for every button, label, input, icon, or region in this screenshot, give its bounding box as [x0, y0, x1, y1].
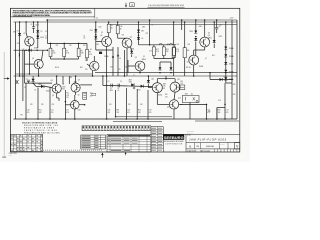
label value 27 [108, 81, 110, 83]
svg-text:Q3: Q3 [100, 35, 102, 37]
wire Q5 base [128, 65, 135, 67]
wire right inner bus [231, 20, 233, 119]
label value 20 [219, 36, 223, 38]
svg-text:10K: 10K [180, 83, 182, 85]
label bdropM4 [149, 110, 152, 114]
label value 48 [233, 94, 236, 96]
svg-text:C7: C7 [133, 75, 135, 77]
wire collector link [157, 78, 175, 80]
svg-text:470: 470 [66, 112, 69, 114]
label value 36 [128, 104, 131, 106]
node feed c [78, 43, 80, 45]
label C4m b [117, 90, 119, 92]
wire R5 bot [108, 33, 110, 37]
wire Q10 base [65, 104, 70, 106]
resistor R8 [162, 47, 165, 56]
wire C8 top [216, 20, 218, 28]
approvals table [151, 127, 163, 152]
drawing number cells [189, 143, 228, 149]
svg-text:CR12: CR12 [219, 36, 223, 38]
diode CR13 [224, 47, 233, 51]
svg-text:Q8: Q8 [51, 80, 53, 82]
node D10 mid [195, 36, 197, 38]
label M1 top2 [191, 93, 193, 96]
wire +24V rail upper [46, 19, 237, 21]
wire Q7 collector [193, 50, 195, 55]
node q5e [139, 72, 141, 74]
svg-text:R8: R8 [70, 77, 72, 79]
label value 45 [199, 66, 203, 68]
label value 22 [24, 87, 26, 89]
label value 40 [20, 115, 23, 117]
wire bottom extra line left [113, 121, 162, 123]
diode CR15b [224, 70, 233, 74]
svg-text:22K: 22K [233, 94, 236, 96]
wire mid link bus [139, 44, 177, 46]
wire R8 b [163, 56, 165, 59]
label value 28 [120, 81, 122, 83]
label C1 [45, 36, 47, 38]
wire Q4 top link [118, 37, 127, 39]
wire ladder s3 [225, 65, 227, 70]
scan corner mark [2, 157, 6, 158]
label value 14 [152, 25, 154, 27]
svg-text:4809: 4809 [74, 82, 77, 84]
wire CR4b bot [131, 54, 133, 57]
wire Q2 base [25, 63, 34, 65]
wire CR20 b [147, 84, 149, 88]
svg-text:EXCELLENCE IN SOUND: EXCELLENCE IN SOUND [164, 141, 184, 143]
node bdropR2 [224, 118, 226, 120]
node rv [181, 19, 183, 21]
node D4 mid [95, 34, 97, 36]
svg-text:R5: R5 [111, 25, 113, 27]
wire R6L bot [63, 57, 65, 59]
transistor Q13 [167, 100, 179, 109]
label bdropM3 [138, 110, 141, 114]
svg-text:470: 470 [108, 112, 111, 114]
svg-text:C6 .01: C6 .01 [35, 24, 40, 26]
label value 55 [96, 44, 99, 46]
label q11 a [163, 83, 166, 85]
capacitor C3 [111, 84, 112, 88]
wire q11 base line [148, 87, 152, 89]
scan edge left [3, 52, 6, 158]
svg-text:Q3: Q3 [101, 32, 103, 34]
svg-text:47K: 47K [109, 104, 112, 106]
label q12 r [180, 81, 183, 83]
label R8 a [166, 49, 169, 51]
svg-text:C9: C9 [17, 31, 19, 33]
svg-text:220: 220 [125, 67, 128, 69]
svg-text:Q8: Q8 [52, 95, 54, 97]
svg-text:R7: R7 [66, 50, 68, 52]
label value 8 [101, 32, 103, 34]
label bdropR2 [226, 110, 229, 114]
svg-text:C11: C11 [51, 110, 54, 112]
wire rlink [217, 107, 225, 109]
left margin arrow [4, 77, 10, 79]
node bdrop 65 [65, 118, 67, 120]
wire C6 bottom [33, 28, 35, 33]
svg-text:C5 .05: C5 .05 [94, 17, 98, 19]
label value 37 [140, 104, 143, 106]
label value 49 [104, 55, 108, 58]
svg-text:R8: R8 [81, 50, 83, 52]
label value 32 [30, 104, 33, 106]
node tap c [47, 49, 49, 51]
label R8L a [89, 52, 91, 54]
label value 6 [83, 45, 86, 47]
label bdropL1 [39, 110, 42, 114]
text cluster lower [90, 93, 96, 97]
sheet scale row [187, 149, 237, 153]
svg-text:C6: C6 [31, 24, 33, 26]
svg-text:1 B (4-24-64) REVISED PER ECN: 1 B (4-24-64) REVISED PER ECN 1042 [148, 5, 184, 7]
node bdropL0 [25, 118, 27, 120]
wire bottom drop R0 [206, 104, 208, 119]
node Q6 rail [204, 19, 206, 21]
svg-text:1N34: 1N34 [137, 90, 141, 92]
label bdropM1 [116, 110, 119, 114]
polarity marker [19, 54, 21, 57]
svg-text:.05: .05 [141, 38, 143, 40]
svg-text:4809: 4809 [185, 94, 188, 96]
svg-text:C14: C14 [127, 110, 130, 112]
wire Q13 emitter [173, 109, 175, 119]
node bdropM2 [126, 118, 128, 120]
wire q8 down [58, 98, 60, 101]
node tap b [36, 49, 38, 51]
label value 9 [111, 25, 113, 27]
svg-text:4.7K: 4.7K [218, 100, 221, 102]
svg-text:4.7K: 4.7K [89, 54, 92, 56]
svg-text:CR10: CR10 [199, 26, 203, 28]
wire R9 t [173, 45, 175, 47]
label C3 a [110, 88, 112, 90]
label Q5 type [142, 59, 146, 61]
wire R6L top [63, 43, 65, 48]
node q10 out [84, 104, 86, 106]
label value 19 [208, 33, 210, 35]
wire Q11 to Q13 h [157, 103, 169, 105]
node cr17a [32, 82, 34, 84]
wire cross bus B [96, 49, 113, 51]
label CR18 a [129, 80, 132, 82]
wire D6 branch [138, 22, 140, 45]
wire bottom common rail [14, 118, 238, 120]
diode CR6 [137, 30, 144, 33]
wire Q11 emitter [156, 93, 158, 98]
label R7L b [81, 53, 84, 55]
wire Q10 out [79, 104, 85, 106]
wire Q4 emitter [126, 48, 128, 76]
svg-text:R14: R14 [212, 55, 215, 57]
label R5L a [53, 50, 55, 52]
wire hop 1 [159, 43, 162, 45]
wire row link [51, 58, 79, 60]
wire Q1 emitter down [28, 46, 30, 74]
svg-text:R10: R10 [62, 89, 65, 91]
label value 39 [218, 100, 221, 102]
size letter box [235, 143, 240, 149]
diode CR4 [90, 29, 98, 32]
node D10 rail [195, 19, 197, 21]
resistor R6 [116, 25, 119, 33]
wire ladder s4 [225, 72, 227, 77]
svg-text:CR4: CR4 [99, 27, 102, 29]
node D4 rail [95, 21, 97, 23]
wire R5L top [50, 43, 52, 48]
svg-text:4.7K: 4.7K [149, 51, 152, 53]
node feed a [50, 43, 52, 45]
label bdropM0 [108, 110, 111, 114]
transistor Q5 [135, 57, 145, 71]
resistor R7L [77, 48, 80, 56]
capacitor C8 [215, 26, 220, 29]
svg-text:R16: R16 [180, 81, 183, 83]
diode CR2 [36, 30, 42, 33]
svg-text:FREQUENCIES ARE 200 KC/SEC: FREQUENCIES ARE 200 KC/SEC [24, 131, 61, 134]
wire D2 branch [37, 22, 39, 48]
diode CR11 [194, 38, 197, 41]
wire R11 bottom [184, 58, 186, 76]
svg-text:22K: 22K [83, 45, 86, 47]
node bdropL1 [37, 118, 39, 120]
node D6 mid [138, 34, 140, 36]
transistor Q8 [51, 80, 62, 93]
label value 54 [80, 67, 83, 69]
wire bottom drop L0 [25, 83, 27, 119]
wire out v [209, 73, 211, 80]
svg-text:22K: 22K [41, 104, 44, 106]
diode CR10 [189, 31, 197, 34]
wire CR12 top [213, 22, 215, 40]
wire D10 lower [195, 42, 197, 56]
node ml1 [149, 44, 151, 46]
node ffin [22, 75, 24, 77]
label R11 a [187, 50, 190, 52]
wire Q2b collector [93, 56, 95, 61]
svg-text:R23: R23 [116, 110, 119, 112]
code ident small text [187, 131, 195, 135]
svg-text:.05: .05 [117, 90, 119, 92]
svg-text:10K: 10K [177, 44, 180, 46]
resistor R8L [86, 49, 89, 57]
title block top line [163, 133, 240, 135]
transistor Q3 [100, 35, 111, 46]
svg-text:47K: 47K [56, 45, 59, 47]
svg-text:470: 470 [27, 112, 30, 114]
wire bottom drop M2 [125, 88, 127, 119]
label R9 b [176, 51, 179, 53]
node R11 rail [184, 21, 186, 23]
general notes border box [11, 8, 95, 17]
label value 10 [121, 26, 123, 28]
transistor Q9 [71, 80, 80, 93]
svg-text:6.8K: 6.8K [66, 53, 69, 55]
diode CR17a [32, 79, 35, 82]
svg-text:2N404: 2N404 [158, 95, 162, 97]
wire R8 t [163, 45, 165, 47]
revision note text above frame [148, 5, 185, 7]
label value 41 [70, 77, 72, 79]
resistor R11 [183, 48, 186, 58]
svg-text:Q13: Q13 [178, 98, 181, 100]
node q9c [75, 75, 77, 77]
node cl [165, 78, 167, 80]
node cr20 [148, 75, 150, 77]
svg-text:47K: 47K [138, 112, 141, 114]
diode CR17 [38, 84, 44, 88]
svg-text:2N404: 2N404 [199, 66, 203, 68]
wire Q1 collector lead [26, 33, 27, 38]
svg-text:CODE IDENT: CODE IDENT [187, 131, 195, 133]
revision zone box 4 above frame [130, 3, 135, 7]
svg-text:4.7K: 4.7K [176, 51, 179, 53]
label C3 b [110, 90, 113, 92]
svg-text:.05: .05 [45, 37, 47, 39]
general notes text block [13, 9, 93, 16]
wire vdrop 118 [117, 47, 119, 76]
label value 57 [186, 67, 191, 69]
label R7 a [156, 49, 159, 51]
svg-text:4809: 4809 [62, 86, 65, 88]
svg-text:C2: C2 [40, 31, 42, 33]
diode CR20 [147, 80, 150, 83]
wire bottom drop M3 [136, 89, 138, 119]
small revision arrow [125, 152, 127, 155]
label C4 value [83, 37, 85, 39]
drawing title text [189, 137, 227, 141]
transistor Q12 [170, 79, 180, 92]
wire shield pair a [22, 50, 24, 101]
wire bottom extra line right [195, 120, 239, 122]
node Q2b e [92, 75, 94, 77]
node R5 rail [108, 21, 110, 23]
svg-text:SHT 1: SHT 1 [9, 155, 13, 157]
wire D10 branch [195, 20, 197, 31]
svg-text:.05: .05 [83, 37, 85, 39]
label value 56 [143, 56, 145, 58]
revision arrow below frame [101, 153, 103, 158]
wire right drop 2258 [224, 83, 226, 104]
label R5 v [111, 27, 113, 29]
wire right bus [236, 20, 238, 119]
svg-text:CR5: CR5 [96, 44, 99, 46]
node bdropR0 [206, 118, 208, 120]
node bdropM1 [115, 116, 117, 118]
wire R11 top [184, 22, 186, 48]
label value 1 [17, 43, 20, 45]
diode CR14 [224, 54, 233, 58]
wire rlink v [216, 108, 218, 119]
resistor R6L [63, 48, 66, 56]
svg-text:TP2: TP2 [118, 69, 121, 71]
wire R5L bot [50, 57, 52, 59]
label b65 [66, 110, 69, 114]
title block divider [185, 134, 187, 152]
node C1 rail [47, 19, 49, 21]
svg-text:C2: C2 [24, 87, 26, 89]
node D1 top [19, 21, 21, 23]
svg-text:Q2: Q2 [32, 58, 34, 60]
wire Q12 emitter [174, 92, 175, 100]
diode CR18 [131, 83, 134, 86]
capacitor C4m [118, 84, 119, 88]
wire C1 drop [46, 20, 48, 43]
svg-text:47K: 47K [166, 51, 169, 53]
node v65 [65, 101, 67, 103]
label bdropL0 [27, 110, 30, 114]
svg-text:47K: 47K [39, 112, 42, 114]
svg-text:R9: R9 [89, 52, 91, 54]
label Q2b r [85, 60, 88, 62]
wire mid bus upper [95, 72, 237, 74]
transistor Q10 [71, 101, 81, 112]
diode CR15 [224, 62, 233, 66]
label q11 b [163, 86, 166, 88]
svg-text:47K: 47K [140, 104, 143, 106]
svg-text:.05: .05 [119, 58, 121, 60]
svg-text:Q4: Q4 [130, 36, 132, 38]
svg-text:C3: C3 [108, 81, 110, 83]
capacitor C2 [26, 78, 31, 81]
wire R8L bot [86, 58, 88, 61]
label value 16 [177, 44, 180, 46]
wire Q3 emitter [106, 46, 108, 76]
node cr9 [170, 72, 172, 74]
label value 34 [52, 104, 55, 106]
wire ladder s1 [225, 49, 227, 54]
label value 43 [118, 69, 121, 71]
svg-text:R12: R12 [156, 49, 159, 51]
svg-text:Q10: Q10 [78, 110, 81, 112]
wire ff line2 [36, 85, 41, 87]
wire ff line3 [44, 86, 52, 87]
wire Q9 out [80, 84, 92, 86]
label value 47 [233, 84, 236, 86]
wire C6 top [33, 22, 35, 27]
svg-text:C4: C4 [120, 81, 122, 83]
svg-text:TP1: TP1 [20, 115, 23, 117]
label R7L a [81, 50, 83, 52]
label mid ff c [62, 89, 65, 91]
node q7e [193, 75, 195, 77]
svg-text:Q5: Q5 [135, 57, 137, 59]
svg-text:4809: 4809 [40, 37, 44, 39]
svg-text:Q7: Q7 [205, 58, 207, 60]
wire CR8 v [159, 62, 161, 67]
svg-text:4809: 4809 [163, 83, 166, 85]
svg-text:4K: 4K [111, 27, 113, 29]
wire CR20 v [147, 76, 149, 80]
svg-text:10K: 10K [218, 112, 221, 114]
node 149 rail [149, 19, 151, 21]
wire bottom drop L2 [49, 88, 51, 120]
svg-text:Q9: Q9 [78, 80, 80, 82]
label value 52 [31, 24, 33, 26]
svg-text:47K: 47K [233, 84, 236, 86]
diode CR16 [220, 77, 228, 81]
connector box J2 [83, 92, 87, 99]
label 10K mid [122, 34, 125, 36]
logo subtext [164, 141, 184, 146]
svg-text:C10: C10 [27, 110, 30, 112]
label q13 r b [165, 96, 168, 98]
svg-text:C6: C6 [117, 88, 119, 90]
wire xcpl a [62, 76, 64, 84]
